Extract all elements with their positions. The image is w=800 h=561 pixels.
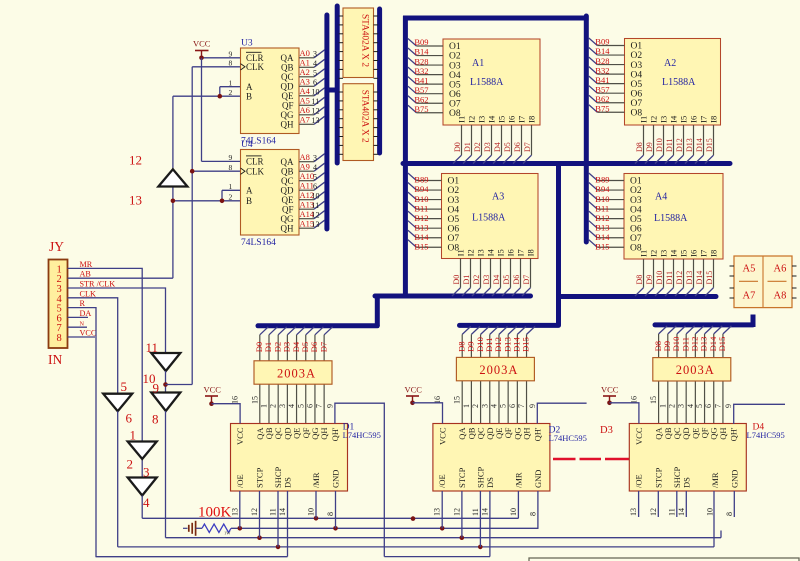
A3 input B15 (408, 240, 417, 248)
bus vertical bus6 (556, 162, 561, 326)
D2 GND stub to rail end (537, 491, 539, 528)
wire D3 bus to 2003A to 595 (287, 327, 296, 335)
svg-text:A5: A5 (743, 264, 756, 275)
svg-text:B62: B62 (414, 94, 428, 104)
svg-text:7: 7 (315, 404, 324, 408)
svg-text:6: 6 (126, 411, 133, 426)
junction dot D1 /MR on rail (314, 516, 319, 521)
svg-text:STCP: STCP (457, 467, 467, 488)
svg-text:I3: I3 (659, 250, 669, 257)
wire U4 A-B jumper (222, 189, 241, 191)
svg-text:MR: MR (80, 260, 93, 269)
svg-text:VCC: VCC (438, 427, 448, 445)
svg-text:D15: D15 (521, 337, 531, 352)
wire D1 QH' cascade to DS rail (335, 403, 384, 556)
junction dot VCC U3 (199, 56, 204, 61)
wire D6 bus to 2003A to 595 (315, 327, 324, 335)
svg-text:12: 12 (452, 508, 461, 516)
svg-text:I1: I1 (456, 249, 466, 256)
shift register U3 74LS164 body (241, 48, 300, 134)
A4 input B94 (589, 183, 598, 191)
bus horizontal feeding 2003A no.2 (460, 323, 559, 328)
svg-text:5: 5 (121, 379, 128, 394)
wire D8 bus to 2003A to 595 (659, 326, 668, 334)
U4 output A15 pin 13 (299, 227, 314, 229)
wire D12 bus to 2003A to 595 (499, 326, 508, 334)
svg-text:D5: D5 (503, 142, 512, 152)
wire D2 bus to 2003A to 595 (278, 327, 287, 335)
A1 input B28 (408, 58, 417, 66)
svg-text:4: 4 (686, 404, 695, 408)
D1 GND stub (335, 491, 337, 528)
svg-text:B14: B14 (414, 232, 429, 242)
svg-text:QH': QH' (330, 427, 340, 441)
svg-text:D9: D9 (645, 275, 654, 285)
A4 input B10 (589, 192, 598, 200)
svg-text:CLK: CLK (246, 62, 265, 72)
junction dot STR tap (163, 382, 168, 387)
U3 output A5 pin 11 (299, 104, 314, 106)
svg-text:QE: QE (282, 195, 294, 205)
bus vertical feeding A1/A3 labels (bus4) (403, 16, 408, 296)
D4 /MR stub to SHCP rail (713, 491, 715, 547)
svg-text:I1: I1 (457, 116, 467, 123)
wire D15 bus to 2003A to 595 (527, 326, 536, 334)
svg-text:O3: O3 (630, 196, 642, 206)
svg-text:I1: I1 (639, 250, 649, 257)
junction dot D2 STCP (460, 535, 465, 540)
rail STCP end upstub (720, 531, 722, 538)
wire D1 bus to 2003A to 595 (269, 327, 278, 335)
buffer triangle 5/6 on CLK line (103, 394, 132, 412)
svg-text:6: 6 (704, 404, 713, 408)
resistor 100K zigzag (202, 524, 231, 532)
svg-text:9: 9 (229, 50, 233, 59)
A2 input B32 (589, 67, 598, 75)
svg-text:O3: O3 (631, 61, 643, 71)
wire D9 bus to 2003A to 595 (471, 326, 480, 334)
svg-text:O6: O6 (630, 224, 642, 234)
svg-text:13: 13 (312, 116, 320, 125)
svg-text:L1588A: L1588A (472, 213, 506, 224)
svg-text:QH: QH (281, 223, 294, 233)
svg-text:SHCP: SHCP (273, 466, 283, 488)
A2 input B14 (589, 48, 598, 56)
svg-text:11: 11 (667, 508, 676, 516)
svg-text:O6: O6 (448, 224, 460, 234)
svg-text:3: 3 (480, 404, 489, 408)
svg-text:/OE: /OE (235, 474, 245, 488)
svg-text:/MR: /MR (311, 472, 321, 488)
wire D12 bus to 2003A to 595 (695, 326, 704, 334)
svg-text:9: 9 (528, 404, 537, 408)
svg-text:O7: O7 (448, 234, 460, 244)
svg-text:I5: I5 (496, 249, 506, 256)
A3 input B10 (408, 192, 417, 200)
svg-text:QA: QA (281, 157, 294, 167)
U3 output A1 pin 4 (299, 66, 314, 68)
A5-A8 divider right (768, 280, 787, 282)
D2 SHCP stub (479, 491, 481, 547)
pin tick STA402A (339, 77, 343, 79)
svg-text:/MR: /MR (710, 472, 720, 488)
svg-text:D10: D10 (655, 271, 664, 285)
bus horizontal feeding 2003A no.3 (655, 322, 753, 327)
wire D9 bus to 2003A to 595 (668, 326, 677, 334)
svg-text:O4: O4 (449, 71, 461, 81)
wire STR between triangles (165, 371, 167, 393)
svg-text:9: 9 (153, 381, 160, 396)
wire clock net vertical V2 (191, 67, 193, 385)
D4 DS stub (685, 491, 687, 517)
title block top border (529, 558, 799, 561)
svg-text:STA402A X 2: STA402A X 2 (360, 90, 370, 143)
wire ground to resistor (196, 527, 202, 529)
bus horizontal segment A under A3 (375, 294, 531, 299)
A4 input B12 (589, 211, 598, 219)
pin tick STA402A (339, 51, 343, 53)
svg-text:B12: B12 (595, 213, 609, 223)
svg-text:I2: I2 (466, 249, 476, 256)
svg-text:D3: D3 (600, 425, 613, 436)
junction dot D1 GND (333, 526, 338, 531)
wire D10 bus to 2003A to 595 (481, 326, 490, 334)
rail GND/OE y528 from resistor (231, 527, 539, 529)
junction dot D2 SHCP (478, 545, 483, 550)
junction dot U3 B (218, 94, 223, 99)
darlington 2003A body (456, 357, 534, 380)
svg-text:B13: B13 (595, 222, 609, 232)
svg-text:2003A: 2003A (277, 366, 316, 380)
D2 /OE stub (441, 491, 443, 528)
svg-text:2: 2 (229, 88, 233, 97)
wire stub VCC from JY pin8 (68, 336, 96, 338)
wire D11 bus to 2003A to 595 (686, 326, 695, 334)
wire D14 bus to 2003A to 595 (714, 326, 723, 334)
U3 output A0 pin 3 (299, 57, 314, 59)
svg-text:QH: QH (522, 428, 532, 440)
svg-text:I4: I4 (669, 115, 679, 123)
svg-text:B89: B89 (414, 175, 428, 185)
svg-text:VCC: VCC (80, 329, 97, 338)
svg-text:4: 4 (313, 59, 317, 68)
svg-text:O7: O7 (449, 99, 461, 109)
svg-text:1: 1 (658, 404, 667, 408)
junction dot V1 U4 B (171, 199, 176, 204)
junction dot V2 U4 CLK (190, 169, 195, 174)
svg-text:O2: O2 (448, 186, 460, 196)
svg-text:O6: O6 (631, 89, 643, 99)
rail SHCP y547 (118, 546, 714, 548)
driver A3 L1588A body (442, 174, 539, 259)
pin tick STA402A (339, 118, 343, 120)
wire R from JY pin5 (68, 308, 288, 557)
svg-text:D5: D5 (502, 275, 511, 285)
svg-text:O3: O3 (449, 61, 461, 71)
bus vertical connector bus7 (375, 294, 380, 326)
svg-text:2003A: 2003A (676, 363, 715, 377)
svg-text:L74HC595: L74HC595 (747, 430, 785, 440)
svg-text:VCC: VCC (601, 385, 619, 395)
red dashed omission line D2-D4 (553, 458, 576, 461)
junction dot D1 SHCP (276, 545, 281, 550)
svg-text:I3: I3 (659, 116, 669, 123)
svg-text:13: 13 (230, 508, 239, 516)
svg-text:B11: B11 (595, 203, 609, 213)
svg-text:VCC: VCC (634, 427, 644, 445)
junction dot D1 /OE (238, 526, 243, 531)
svg-text:SHCP: SHCP (672, 466, 682, 488)
wire U3 B input (173, 95, 241, 97)
wire AB net vertical V1 (172, 96, 174, 169)
svg-text:12: 12 (129, 153, 142, 168)
svg-text:15: 15 (453, 396, 462, 404)
wire stub DA from JY pin6 (68, 316, 89, 318)
svg-text:11: 11 (146, 340, 159, 355)
D1 /OE stub (239, 491, 241, 528)
svg-text:I5: I5 (679, 250, 689, 257)
svg-text:/MR: /MR (513, 472, 523, 488)
U4 output A10 pin 5 (299, 180, 314, 182)
svg-text:QE: QE (282, 91, 294, 101)
A3 input B11 (408, 202, 417, 210)
bus A-net vertical left of STA402A (bus1) (324, 15, 329, 229)
svg-text:I3: I3 (476, 249, 486, 256)
svg-text:I1: I1 (639, 116, 649, 123)
A3 input B14 (408, 230, 417, 238)
svg-text:11: 11 (312, 97, 320, 106)
svg-text:5: 5 (296, 404, 305, 408)
darlington 2003A body (653, 358, 731, 381)
svg-text:74LS164: 74LS164 (241, 238, 276, 248)
bus vertical feeding A2/A4 labels (bus5) (584, 16, 589, 242)
svg-text:D11: D11 (665, 139, 674, 152)
wire U3 A-B jumper (220, 86, 241, 88)
A4 input B15 (589, 240, 598, 248)
svg-text:I2: I2 (467, 116, 477, 123)
svg-text:O2: O2 (630, 186, 642, 196)
svg-text:D13: D13 (685, 138, 694, 152)
svg-text:8: 8 (229, 59, 233, 68)
svg-text:D2: D2 (472, 275, 481, 285)
wire CLK triangle output to SHCP rail (117, 411, 119, 547)
svg-text:O5: O5 (631, 80, 643, 90)
svg-text:I7: I7 (699, 116, 709, 123)
svg-text:A6: A6 (774, 264, 787, 275)
pin tick STA402A (339, 60, 343, 62)
svg-text:D14: D14 (695, 138, 704, 152)
svg-text:STCP: STCP (653, 467, 663, 488)
svg-text:O4: O4 (630, 205, 642, 215)
svg-text:VCC: VCC (193, 39, 211, 49)
wire VCC to U3 CLR (202, 57, 241, 59)
svg-text:4: 4 (143, 495, 150, 510)
svg-text:GND: GND (729, 470, 739, 488)
driver A4 L1588A body (624, 174, 723, 260)
svg-text:2: 2 (269, 404, 278, 408)
wire D4 bus to 2003A to 595 (297, 327, 306, 335)
svg-text:10: 10 (312, 87, 320, 96)
svg-text:A8: A8 (774, 291, 787, 302)
svg-text:O5: O5 (448, 215, 460, 225)
A4 input B11 (589, 202, 598, 210)
A2 input B75 (589, 105, 598, 113)
svg-text:9: 9 (724, 404, 733, 408)
svg-text:I6: I6 (507, 116, 517, 123)
A1 input B09 (408, 39, 417, 47)
svg-text:I2: I2 (649, 116, 659, 123)
svg-text:VCC: VCC (235, 427, 245, 445)
svg-text:I4: I4 (669, 249, 679, 257)
svg-text:I6: I6 (689, 116, 699, 123)
svg-text:B10: B10 (414, 194, 428, 204)
svg-text:SHCP: SHCP (475, 466, 485, 488)
svg-text:A2: A2 (300, 67, 310, 77)
svg-text:O1: O1 (448, 177, 460, 187)
D1 DS stub (287, 491, 289, 557)
svg-text:QB: QB (281, 63, 294, 73)
component STA402A X 2 (343, 8, 374, 78)
buffer triangle 3/4 on MR line (128, 478, 157, 496)
A2 input B41 (589, 76, 598, 84)
pin tick STA402A (339, 91, 343, 93)
D4 STCP stub (657, 491, 659, 517)
svg-text:B89: B89 (595, 175, 609, 185)
svg-text:B75: B75 (414, 104, 428, 114)
wire MR between triangles 2-3 (141, 459, 143, 478)
buffer triangle 11/10 on STR line (151, 353, 180, 371)
svg-text:10: 10 (509, 508, 518, 516)
wire D13 bus to 2003A to 595 (508, 326, 517, 334)
svg-text:QF: QF (282, 101, 294, 111)
svg-text:I4: I4 (487, 115, 497, 123)
A2 input B57 (589, 86, 598, 94)
wire D15 bus to 2003A to 595 (723, 326, 732, 334)
rail DS right segment y557 (QH' cascade) (384, 556, 490, 558)
wire stub N from JY pin7 (68, 326, 88, 328)
svg-text:A4: A4 (655, 192, 667, 203)
svg-text:B09: B09 (595, 37, 609, 47)
ground symbol (183, 527, 188, 529)
svg-text:D1: D1 (463, 142, 472, 152)
svg-text:B41: B41 (595, 75, 609, 85)
svg-text:15: 15 (649, 396, 658, 404)
wire D5 bus to 2003A to 595 (306, 327, 315, 335)
wire VCC to D1 pin16 (212, 404, 241, 424)
svg-text:D4: D4 (493, 142, 502, 152)
svg-text:8: 8 (528, 512, 537, 516)
svg-text:B13: B13 (414, 222, 428, 232)
svg-text:B75: B75 (595, 103, 609, 113)
svg-text:STA402A X 2: STA402A X 2 (360, 14, 370, 67)
pin tick STA402A (339, 15, 343, 17)
svg-text:B94: B94 (414, 184, 429, 194)
svg-text:DS: DS (485, 477, 495, 488)
D1 STCP stub (259, 491, 261, 538)
svg-text:11: 11 (471, 508, 480, 516)
wire tap to V2 bottom (166, 384, 193, 386)
A4 input B89 (589, 173, 598, 181)
svg-text:10: 10 (705, 508, 714, 516)
D4 /OE stub (638, 491, 640, 517)
A3 input B94 (408, 183, 417, 191)
svg-text:O1: O1 (449, 42, 461, 52)
svg-text:VCC: VCC (204, 385, 222, 395)
pin tick STA402A (339, 100, 343, 102)
svg-text:D9: D9 (645, 142, 654, 152)
bus horizontal feeding 2003A no.1 (258, 323, 377, 328)
svg-text:A7: A7 (300, 115, 310, 125)
svg-text:12: 12 (312, 106, 320, 115)
svg-text:D6: D6 (512, 275, 521, 285)
svg-text:D4: D4 (492, 275, 501, 285)
A1 input B32 (408, 67, 417, 75)
A4 input B13 (589, 221, 598, 229)
svg-text:D13: D13 (685, 271, 694, 285)
svg-text:100K: 100K (198, 505, 232, 521)
junction dot rail /MR x413 (411, 516, 416, 521)
svg-text:O3: O3 (448, 196, 460, 206)
svg-text:A10: A10 (300, 171, 315, 181)
U4 output A11 pin 6 (299, 189, 314, 191)
svg-text:B10: B10 (595, 194, 609, 204)
wire U4 B input (173, 200, 241, 202)
wire vertical VCC to U4 CLR (201, 58, 203, 162)
svg-text:/OE: /OE (437, 474, 447, 488)
svg-text:3: 3 (313, 49, 317, 58)
svg-text:B41: B41 (414, 75, 428, 85)
svg-text:B15: B15 (595, 241, 609, 251)
svg-text:A11: A11 (300, 181, 314, 191)
svg-text:A: A (246, 186, 253, 196)
svg-text:2003A: 2003A (479, 363, 518, 377)
D2 STCP stub (461, 491, 463, 538)
svg-text:QB: QB (281, 166, 294, 176)
bus vertical right of STA402A (bus3) (377, 9, 382, 153)
svg-text:D12: D12 (675, 138, 684, 152)
A2 input B09 (589, 38, 598, 46)
D4 SHCP stub (676, 491, 678, 517)
bus vertical bus2 left ticks STA402A (335, 6, 340, 163)
A2 input B62 (589, 95, 598, 103)
driver A2 L1588A body (625, 39, 721, 126)
svg-text:D10: D10 (655, 138, 664, 152)
svg-text:13: 13 (129, 193, 142, 208)
wire D4 QH' stub (734, 404, 785, 424)
svg-text:B09: B09 (414, 37, 428, 47)
svg-text:A2: A2 (664, 58, 676, 69)
svg-text:B62: B62 (595, 94, 609, 104)
svg-text:O5: O5 (449, 80, 461, 90)
svg-text:6: 6 (508, 404, 517, 408)
svg-text:A4: A4 (300, 86, 311, 96)
D4 GND stub (733, 491, 735, 517)
svg-text:D15: D15 (717, 337, 727, 352)
U4 output A9 pin 4 (299, 170, 314, 172)
bus top horizontal (403, 16, 589, 21)
svg-text:B57: B57 (595, 84, 609, 94)
svg-text:10: 10 (307, 508, 316, 516)
svg-text:JY: JY (49, 239, 64, 254)
svg-text:A3: A3 (300, 77, 310, 87)
U4 output A14 pin 12 (299, 218, 314, 220)
svg-text:I7: I7 (699, 250, 709, 257)
svg-text:O6: O6 (449, 90, 461, 100)
buffer triangle 9/8 on STR line (151, 393, 180, 412)
svg-text:6: 6 (313, 78, 317, 87)
svg-text:CLR: CLR (246, 156, 264, 166)
D2 /MR stub to rail end (517, 491, 519, 518)
